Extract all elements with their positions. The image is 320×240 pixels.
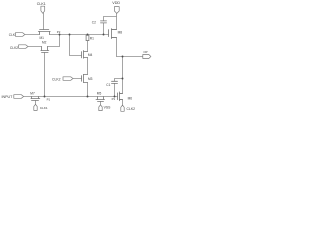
resistor R1 xyxy=(86,35,89,40)
wire output branch to C1 xyxy=(115,79,123,82)
transistor M4 xyxy=(82,51,88,59)
junction output OP xyxy=(122,56,124,58)
port VSS under M5 xyxy=(99,105,102,111)
junction rail C1 xyxy=(114,96,116,98)
svg-text:M3: M3 xyxy=(88,77,93,81)
junction rail M3 xyxy=(87,96,89,98)
svg-text:CLK2: CLK2 xyxy=(52,77,61,81)
svg-text:P1: P1 xyxy=(112,97,116,101)
wire output to OP port xyxy=(117,56,143,58)
wire M6 source to port xyxy=(120,100,123,106)
transistor M6 xyxy=(118,92,123,101)
junction output C1 xyxy=(122,78,124,80)
svg-text:CLK: CLK xyxy=(9,33,16,37)
wire M7 gate to port xyxy=(35,101,37,105)
wire port CLK to M1 source xyxy=(25,34,40,36)
svg-text:INPUT: INPUT xyxy=(2,95,14,99)
port CLK2 under M6 xyxy=(121,105,124,111)
wire port CLK2 mid to M3 gate xyxy=(73,78,82,80)
port CLK1 top xyxy=(41,6,45,13)
port CLK left xyxy=(15,33,25,37)
junction bus M4 gate xyxy=(69,34,71,36)
port VDD xyxy=(114,7,119,14)
svg-text:M2: M2 xyxy=(42,40,47,44)
svg-text:M6: M6 xyxy=(128,96,133,100)
transistor M8 xyxy=(109,29,117,39)
junction P2 xyxy=(59,34,61,36)
junction bus R1 xyxy=(87,34,89,36)
transistor M2 xyxy=(41,47,49,53)
junction P1 xyxy=(44,96,46,98)
port OP xyxy=(143,55,151,59)
transistor M3 xyxy=(82,74,88,82)
port INPUT xyxy=(14,95,24,99)
wire M4 source to M3 drain xyxy=(87,58,89,75)
transistor M1 xyxy=(38,30,50,35)
wire M2 drain riser to bus xyxy=(48,35,60,47)
svg-text:M8: M8 xyxy=(118,30,123,34)
wire M8 drain up to VDD xyxy=(112,13,117,29)
wire CLK1 port to M1 gate xyxy=(43,13,45,29)
capacitor C1 xyxy=(112,81,118,83)
wire M8 source down to output xyxy=(112,38,117,57)
svg-text:VDD: VDD xyxy=(112,1,120,5)
wire input rail node P1 xyxy=(24,96,118,98)
svg-text:R1: R1 xyxy=(90,36,94,40)
wire M2 gate to node P1 xyxy=(44,53,46,97)
port CLK2 left xyxy=(19,45,28,49)
svg-text:C2: C2 xyxy=(92,20,96,24)
svg-text:CLK2: CLK2 xyxy=(10,46,18,50)
svg-text:CLK1: CLK1 xyxy=(40,106,48,110)
transistor M5 xyxy=(96,97,105,102)
wire bus to resistor R1 top xyxy=(87,34,89,37)
svg-text:CLK1: CLK1 xyxy=(37,2,46,6)
svg-text:C1: C1 xyxy=(106,83,110,87)
svg-text:P1: P1 xyxy=(47,97,51,101)
junction bus C2 xyxy=(103,34,105,36)
wire VDD rail branch to C2 xyxy=(104,17,117,21)
svg-text:M7: M7 xyxy=(30,92,35,96)
port CLK2 mid xyxy=(63,77,73,81)
capacitor C2 xyxy=(101,21,107,23)
wire bus node P2 (M1 drain to M8 gate) xyxy=(50,34,109,36)
wire bus to M4 gate xyxy=(70,35,82,56)
svg-text:M5: M5 xyxy=(97,92,102,96)
wire C1 bottom to rail xyxy=(114,83,116,96)
svg-text:OP: OP xyxy=(143,50,147,54)
svg-text:VSS: VSS xyxy=(104,105,112,109)
svg-text:P2: P2 xyxy=(57,30,61,34)
wire port CLK2 to M2 source xyxy=(28,46,42,48)
wire M5 gate to port xyxy=(100,102,102,105)
svg-text:CLK2: CLK2 xyxy=(127,107,136,111)
wire M6 drain to output line xyxy=(120,57,123,94)
wire M3 source to rail P1 xyxy=(87,83,89,97)
svg-text:M4: M4 xyxy=(88,53,93,57)
transistor M7 xyxy=(31,97,40,101)
wire R1 bottom to M4 drain xyxy=(87,41,89,52)
port CLK under M7 xyxy=(34,104,37,110)
wire C2 bottom to bus xyxy=(103,23,105,35)
